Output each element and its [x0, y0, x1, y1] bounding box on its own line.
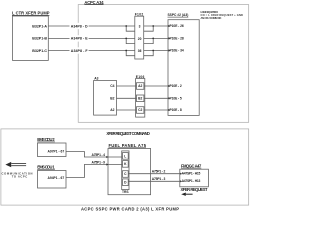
- wire pump C to F102 pin 36: [48, 50, 69, 52]
- FUEL PANEL A75 box: [108, 149, 151, 195]
- EMI filter F102 box: [135, 16, 144, 59]
- XFER REQUEST COMMAND enclosure box: [1, 129, 249, 205]
- svg-text:ACPC SSPC PWR CARD 2 (A3) L XF: ACPC SSPC PWR CARD 2 (A3) L XFR PUMP: [81, 206, 179, 211]
- svg-text:A75P1 - 9: A75P1 - 9: [92, 161, 106, 165]
- svg-text:A34P8 - D: A34P8 - D: [71, 24, 88, 28]
- wire EMS CDU 2 to fuel panel pin L: [66, 152, 123, 158]
- arrowhead into FMQGC pin H13: [180, 180, 182, 182]
- SSPC #2 (A3) box: [168, 20, 199, 116]
- svg-text:XFER REQUEST: XFER REQUEST: [181, 187, 208, 192]
- svg-text:36: 36: [138, 49, 142, 53]
- svg-text:L: L: [124, 154, 126, 158]
- svg-text:EMS CDU 1: EMS CDU 1: [37, 165, 55, 170]
- junction dot right ch1: [152, 25, 154, 27]
- wire EMS CDU 1 to fuel panel pin K: [66, 165, 123, 178]
- arrowhead into SSPC P10E-34: [168, 49, 170, 51]
- connector E106 pin cell A2: [137, 83, 144, 90]
- label L CTR XFER PUMP: [12, 10, 50, 15]
- wire return branch right ch2: [144, 38, 154, 43]
- svg-text:A75P1 - 2: A75P1 - 2: [152, 169, 166, 173]
- svg-text:P10E - 28: P10E - 28: [170, 37, 184, 41]
- svg-text:A75P1 - 3: A75P1 - 3: [152, 177, 166, 181]
- fuel panel pin cell C: [123, 171, 129, 178]
- arrowhead into SSPC P10E-28: [168, 37, 170, 39]
- label COMMUNICATION TO ACPC: [2, 171, 33, 178]
- wire E106 C2 to SSPC P10E-8: [144, 109, 168, 111]
- fuel panel pin cell D: [123, 179, 129, 186]
- wire return branch right ch1: [144, 26, 154, 31]
- svg-text:EMS CDU 2: EMS CDU 2: [37, 137, 55, 142]
- arrowhead into FMQGC pin H15: [180, 173, 182, 175]
- wire F102 pin 36 to SSPC P10E-34: [144, 50, 168, 52]
- svg-text:L CTR XFER PUMP: L CTR XFER PUMP: [12, 10, 50, 15]
- svg-text:C4: C4: [110, 84, 114, 88]
- label EMS CDU 1: [37, 165, 55, 170]
- junction dot right ch3: [152, 50, 154, 52]
- svg-text:20: 20: [138, 37, 142, 41]
- arrowhead into SSPC P10E-2: [168, 85, 170, 87]
- label FUEL PANEL A75: [109, 143, 147, 148]
- junction dot left ch2: [125, 38, 127, 40]
- connector E106 pin cell C2: [137, 107, 144, 114]
- wire A3 B2 to E106 B2: [117, 97, 137, 99]
- svg-text:A34P8 - F: A34P8 - F: [71, 49, 89, 53]
- label ACPC A34: [84, 0, 104, 5]
- svg-text:FMQGC A47: FMQGC A47: [181, 163, 202, 168]
- arrowhead into SSPC P10E-5: [168, 97, 170, 99]
- wire label backgrounds: [70, 23, 89, 54]
- wire return branch left ch2: [126, 38, 135, 43]
- junction dot right ch2: [152, 38, 154, 40]
- svg-text:P10E - 8: P10E - 8: [170, 108, 182, 112]
- xfer request arrow: [181, 193, 192, 196]
- wire fuel panel pin D to FMQGC A47SP1-H13: [128, 180, 180, 182]
- svg-text:P10E - 2: P10E - 2: [170, 84, 182, 88]
- svg-text:XFER REQUEST COMMAND: XFER REQUEST COMMAND: [106, 131, 150, 136]
- arrowhead into SSPC P10E-26: [168, 25, 170, 27]
- wire return branch right ch3: [144, 51, 154, 56]
- EMS CDU 2 box: [38, 143, 67, 157]
- wire return branch left ch1: [126, 26, 135, 31]
- svg-text:A97P1 - 67: A97P1 - 67: [48, 150, 65, 154]
- svg-text:E106: E106: [136, 75, 145, 79]
- wire A3 C4 to E106 A2: [117, 85, 137, 87]
- connector E106 pin cell B2: [137, 95, 144, 102]
- svg-text:A2: A2: [110, 108, 114, 112]
- fuel panel connector column: [122, 151, 129, 190]
- junction dot left ch3: [125, 50, 127, 52]
- svg-text:B32P1-C: B32P1-C: [32, 49, 47, 53]
- connector E106 box: [136, 79, 145, 118]
- svg-text:A94P1 - 67: A94P1 - 67: [48, 176, 65, 180]
- svg-text:A75P1 - 4: A75P1 - 4: [92, 153, 106, 157]
- svg-text:AN CDU COMM OK: AN CDU COMM OK: [201, 16, 222, 20]
- svg-text:F102: F102: [135, 12, 144, 16]
- svg-text:P10E - 5: P10E - 5: [170, 97, 182, 101]
- wire pump B to F102 pin 20: [48, 37, 69, 39]
- wire A3 A2 to E106 C2: [117, 109, 137, 111]
- svg-text:TO ACPC: TO ACPC: [12, 175, 28, 179]
- svg-text:B2: B2: [110, 97, 114, 101]
- svg-text:P10E - 34: P10E - 34: [170, 49, 184, 53]
- label SSPC #2 (A3): [168, 13, 189, 17]
- EMS CDU 1 box: [38, 171, 67, 189]
- svg-text:FUEL PANEL A75: FUEL PANEL A75: [109, 143, 147, 148]
- svg-text:B32P1-A: B32P1-A: [32, 24, 47, 28]
- svg-text:TRS: TRS: [122, 190, 129, 194]
- svg-text:B32P1-B: B32P1-B: [32, 37, 47, 41]
- svg-text:P10E - 26: P10E - 26: [170, 24, 184, 28]
- svg-text:A2: A2: [138, 84, 142, 88]
- card A3 box: [94, 81, 117, 116]
- wire pump A to F102 pin 3: [48, 25, 69, 27]
- ACPC A34 enclosure box: [78, 5, 249, 123]
- wire fuel panel pin C to FMQGC A47SP1-H15: [128, 173, 180, 175]
- svg-text:A47SP1 - H15: A47SP1 - H15: [182, 172, 201, 176]
- wire return branch left ch3: [126, 51, 135, 56]
- arrowhead into fuel panel pin L: [106, 156, 108, 158]
- svg-text:A3: A3: [94, 77, 98, 81]
- wire E106 B2 to SSPC P10E-5: [144, 97, 168, 99]
- fuel panel pin cell K: [123, 161, 129, 168]
- logic equation note: [201, 10, 244, 20]
- fuel panel pin cell L: [123, 153, 129, 160]
- FMQGC A47 box: [180, 169, 209, 187]
- wire F102 pin 20 to SSPC P10E-28: [144, 37, 168, 39]
- arrowhead into SSPC P10E-8: [168, 109, 170, 111]
- communication to ACPC arrow: [5, 162, 26, 167]
- svg-text:SSPC #2 (A3): SSPC #2 (A3): [168, 13, 189, 17]
- arrowhead into fuel panel pin K: [106, 163, 108, 165]
- svg-text:B2: B2: [138, 97, 142, 101]
- wire E106 A2 to SSPC P10E-2: [144, 85, 168, 87]
- svg-text:A47SP1 - H13: A47SP1 - H13: [182, 179, 201, 183]
- svg-text:3: 3: [139, 24, 141, 28]
- L CTR XFER pump box B32: [13, 16, 49, 60]
- wire F102 pin 3 to SSPC P10E-26: [144, 25, 168, 27]
- label FMQGC A47: [181, 163, 202, 168]
- label EMS CDU 2: [37, 137, 55, 142]
- junction dot left ch1: [125, 25, 127, 27]
- svg-text:A34P8 - E: A34P8 - E: [71, 37, 88, 41]
- svg-text:C2: C2: [138, 108, 142, 112]
